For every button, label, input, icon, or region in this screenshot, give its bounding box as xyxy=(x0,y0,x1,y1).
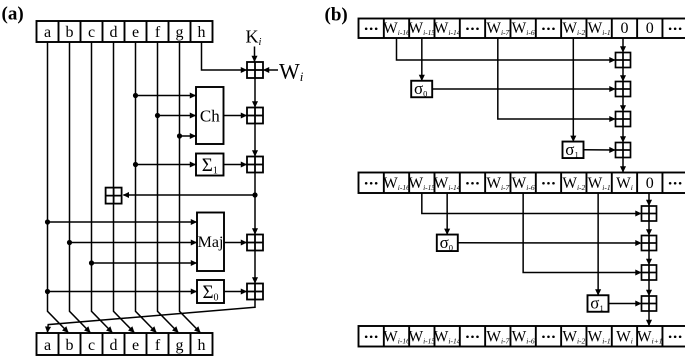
svg-text:c: c xyxy=(88,337,95,354)
svg-text:e: e xyxy=(132,24,139,41)
svg-text:Ch: Ch xyxy=(200,107,220,126)
svg-text:0: 0 xyxy=(646,175,654,192)
svg-text:(b): (b) xyxy=(325,5,348,26)
svg-text:b: b xyxy=(66,24,74,41)
svg-text:Wi: Wi xyxy=(616,175,633,192)
svg-text:b: b xyxy=(66,337,74,354)
svg-text:h: h xyxy=(198,337,206,354)
svg-text:0: 0 xyxy=(646,20,654,37)
svg-text:(a): (a) xyxy=(2,4,24,25)
svg-text:f: f xyxy=(155,337,161,354)
svg-text:g: g xyxy=(176,337,184,354)
svg-text:c: c xyxy=(88,24,95,41)
svg-text:Maj: Maj xyxy=(198,234,224,251)
svg-text:a: a xyxy=(44,337,51,354)
svg-text:Wi: Wi xyxy=(616,328,633,345)
svg-text:d: d xyxy=(110,337,118,354)
svg-text:d: d xyxy=(110,24,118,41)
svg-text:a: a xyxy=(44,24,51,41)
svg-text:0: 0 xyxy=(620,20,628,37)
svg-text:h: h xyxy=(198,24,206,41)
svg-text:f: f xyxy=(155,24,161,41)
svg-text:e: e xyxy=(132,337,139,354)
svg-text:g: g xyxy=(176,24,184,41)
